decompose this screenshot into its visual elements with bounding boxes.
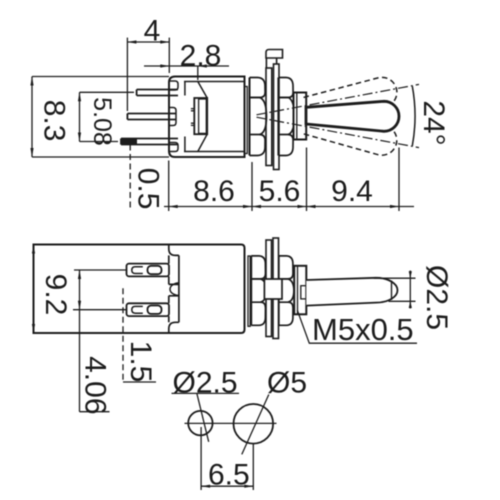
bottom dimension chain: extension line at case left: [168, 161, 170, 212]
hex nut B (bottom view): [279, 256, 294, 325]
lever tip chord: [391, 281, 393, 301]
svg-text:4.06: 4.06: [79, 356, 112, 414]
extension line to lug 1 center: [74, 269, 127, 271]
dash-dot center line upper (tilted): [257, 84, 420, 114]
lug base separators: [169, 284, 179, 295]
actuator window outer: [194, 98, 207, 134]
contact tick upper: [191, 109, 194, 111]
pin boss top: [170, 81, 179, 90]
terminal lug 1 blade: [127, 264, 170, 277]
hex nut A (behind washers): [250, 78, 267, 156]
dimension line 6.5: [201, 485, 253, 488]
terminal lug 2 blade: [127, 303, 170, 316]
lug 1 crimp: [132, 267, 143, 274]
svg-text:1.5: 1.5: [124, 341, 157, 383]
dimension 2.8: extension line right: [197, 66, 199, 80]
extension line to lug 2 center: [73, 309, 127, 311]
dimension 2.8: dim/leader line under text: [144, 65, 229, 67]
contact tick lower: [191, 123, 194, 125]
svg-text:6.5: 6.5: [208, 459, 250, 492]
svg-text:2.8: 2.8: [180, 40, 222, 73]
hex nut A (bottom view): [251, 256, 266, 325]
svg-text:8.6: 8.6: [193, 175, 235, 208]
dimension line 8.6 / 5.6 / 9.4: [164, 205, 414, 208]
center bump: [170, 283, 178, 296]
lip plate (bottom view): [248, 256, 250, 326]
svg-text:9.2: 9.2: [39, 274, 72, 316]
extension line at lever tip: [398, 148, 400, 212]
pin 2 (middle terminal): [127, 114, 176, 120]
body outline: [34, 245, 245, 334]
pin boss middle: [170, 108, 177, 126]
angle arc 24 deg: [412, 86, 415, 146]
lock washer tab (end-on): [264, 279, 282, 299]
small mounting hole dia 2.5: [188, 411, 212, 435]
lug 2 crimp: [132, 306, 143, 313]
dimension 1.5: leader shoulder: [123, 381, 156, 383]
dimension line 4: [127, 40, 169, 43]
large mounting hole dia 5: [234, 404, 274, 444]
svg-text:9.4: 9.4: [331, 175, 373, 208]
frame diagonal top: [198, 82, 207, 99]
frame diagonal bottom: [198, 134, 207, 151]
svg-text:5.6: 5.6: [259, 175, 301, 208]
pin 3 (bottom terminal): [121, 139, 178, 145]
svg-text:Ø2.5: Ø2.5: [173, 367, 238, 400]
dimension diameter 2.5: extension lines: [374, 277, 416, 279]
dimension line 5.08: [78, 92, 81, 141]
svg-text:M5x0.5: M5x0.5: [312, 312, 414, 347]
svg-text:0.5: 0.5: [132, 168, 165, 210]
toggle lever (solid): [306, 101, 399, 131]
case inner left vertical (lower): [184, 137, 186, 152]
actuator window inner: [199, 99, 207, 133]
bushing inner line (bottom view): [297, 266, 299, 315]
dimension 4: extension line right (to case top): [168, 38, 170, 73]
washer plate B: [274, 64, 280, 170]
dimension 6.5: extension lines: [200, 427, 202, 490]
extension line at washer plane: [251, 162, 253, 211]
dimension line diameter 2.5: [409, 271, 412, 309]
hex nut B: [278, 78, 294, 156]
pin 3 hatched tip: [121, 139, 137, 145]
svg-text:Ø5: Ø5: [267, 367, 307, 400]
washer plate B (bottom view): [273, 238, 279, 339]
thread label M5x0.5 leader: [297, 310, 417, 343]
case inner bottom line: [184, 151, 245, 153]
dimension 0.5: dashed extension line: [129, 145, 131, 211]
washer plate A (bottom view): [266, 240, 272, 337]
case inner left vertical (upper): [184, 82, 186, 96]
terminal column bottom notch: [169, 322, 179, 333]
tab connector lines: [266, 58, 276, 68]
label dia 2.5 underline: [172, 392, 240, 394]
svg-text:8.3: 8.3: [37, 100, 70, 142]
washer plate A: [266, 68, 272, 166]
case lip: [245, 87, 248, 154]
svg-text:5.08: 5.08: [88, 97, 116, 146]
label dia 2.5 leader: [197, 393, 209, 442]
lever (bottom view): [306, 278, 397, 306]
lock washer tab flag: [266, 50, 283, 59]
dimension 4: extension line left (to middle pin tip): [126, 38, 128, 111]
dash-dot center line lower (tilted): [257, 117, 420, 147]
terminal column left edge segments: [168, 255, 170, 322]
extension line 5.08 bottom (to pin 3): [80, 141, 119, 143]
case inner top line: [184, 81, 245, 83]
phantom lever up position (dashed): [302, 75, 399, 121]
label dia 5 leader: [242, 395, 269, 455]
svg-text:4: 4: [144, 15, 161, 48]
lug 1 hole: [148, 266, 162, 274]
terminal column right edge: [178, 255, 180, 322]
pin 1 (top terminal): [137, 90, 178, 96]
dimension line 8.3: [30, 77, 33, 158]
pin boss bottom: [170, 143, 179, 152]
bushing front step: [301, 286, 307, 299]
extension line 5.08 top (to pin 1): [80, 91, 135, 93]
extension line at bushing right: [306, 148, 308, 212]
svg-text:24°: 24°: [417, 100, 450, 145]
threaded bushing (bottom view): [294, 266, 306, 315]
terminal column top notch: [169, 245, 179, 256]
phantom lever down position (dashed): [302, 112, 399, 158]
extension line 8.3 top (case top edge extended left): [32, 76, 169, 78]
extension line 8.3 bottom (case bottom edge extended left): [32, 156, 169, 158]
bushing inner line: [296, 93, 298, 140]
dimension line 4.06: [78, 270, 110, 412]
hole center line: [185, 422, 277, 424]
dimension 9.2 arrows on left edge: [32, 245, 35, 254]
switch case outline: [169, 77, 245, 158]
dimension 1.5: dashed line: [122, 288, 124, 382]
lug 2 hole: [148, 306, 162, 314]
dimension 2.8: arrows: [160, 64, 207, 67]
threaded bushing: [294, 93, 307, 140]
svg-text:Ø2.5: Ø2.5: [420, 265, 453, 330]
